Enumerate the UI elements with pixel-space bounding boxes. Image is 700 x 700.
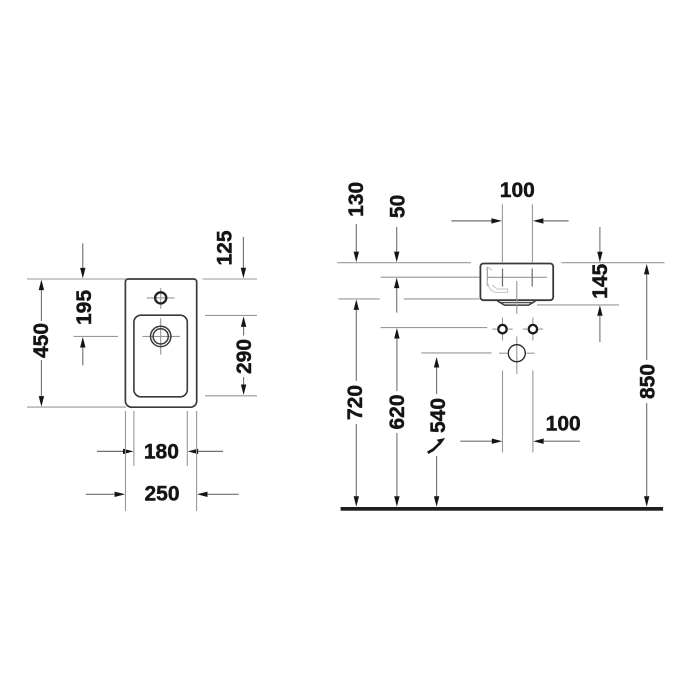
svg-text:100: 100 [500, 179, 535, 202]
svg-text:250: 250 [144, 483, 179, 506]
svg-text:540: 540 [427, 398, 450, 433]
svg-text:450: 450 [30, 323, 53, 358]
svg-text:720: 720 [344, 385, 367, 420]
svg-text:125: 125 [213, 230, 236, 265]
svg-text:50: 50 [386, 195, 409, 218]
svg-text:850: 850 [637, 364, 660, 399]
svg-text:130: 130 [345, 182, 368, 217]
svg-text:145: 145 [589, 263, 612, 298]
svg-text:100: 100 [546, 413, 581, 436]
svg-text:620: 620 [386, 394, 409, 429]
svg-text:290: 290 [233, 339, 256, 374]
svg-text:195: 195 [73, 290, 96, 325]
svg-text:180: 180 [144, 440, 179, 463]
